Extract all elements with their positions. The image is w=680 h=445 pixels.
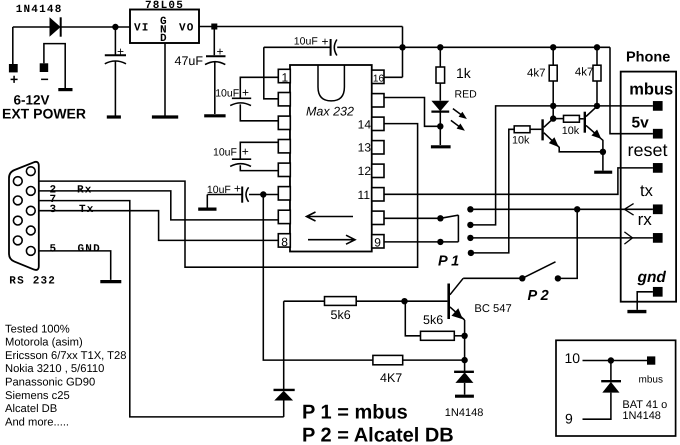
svg-text:5v: 5v [632,115,650,132]
svg-text:5k6: 5k6 [423,313,443,327]
svg-text:5k6: 5k6 [331,308,351,322]
svg-text:1k: 1k [456,65,472,81]
svg-text:78L05: 78L05 [145,0,184,12]
svg-text:10uF: 10uF [207,184,231,196]
svg-text:BC 547: BC 547 [474,303,511,315]
svg-text:10uF: 10uF [294,35,318,47]
svg-text:1N4148: 1N4148 [622,410,661,422]
svg-text:P 1 = mbus: P 1 = mbus [302,402,408,424]
svg-text:+: + [10,71,18,87]
svg-text:4K7: 4K7 [380,371,402,385]
svg-text:9: 9 [565,411,573,427]
svg-text:Alcatel DB: Alcatel DB [5,403,57,415]
svg-text:Ericsson 6/7xx T1X, T28: Ericsson 6/7xx T1X, T28 [5,350,126,362]
svg-text:1: 1 [282,71,289,85]
svg-text:1N4148: 1N4148 [16,4,63,16]
svg-text:−: − [41,71,49,87]
svg-text:8: 8 [281,235,288,249]
svg-text:+: + [242,144,249,158]
svg-text:11: 11 [358,188,371,202]
svg-text:gnd: gnd [637,269,667,286]
svg-text:4k7: 4k7 [527,68,546,80]
svg-text:14: 14 [358,118,372,132]
svg-text:4k7: 4k7 [575,67,594,79]
svg-text:10k: 10k [512,134,530,146]
svg-text:D: D [160,33,168,45]
svg-text:Phone: Phone [626,50,670,66]
svg-text:13: 13 [358,141,372,155]
svg-text:10uF: 10uF [213,147,237,159]
svg-text:P 2 = Alcatel DB: P 2 = Alcatel DB [302,424,454,445]
svg-text:Nokia 3210 , 5/6110: Nokia 3210 , 5/6110 [5,363,104,375]
svg-text:RED: RED [455,88,478,100]
svg-text:rx: rx [638,210,653,229]
svg-text:+: + [117,45,124,59]
svg-text:VO: VO [179,22,195,34]
svg-text:Rx: Rx [77,184,93,196]
svg-text:reset: reset [628,140,668,160]
svg-text:3: 3 [50,204,58,216]
svg-text:10: 10 [565,350,581,366]
svg-text:10k: 10k [562,125,580,137]
svg-text:mbus: mbus [639,374,663,385]
svg-text:47uF: 47uF [175,54,204,68]
svg-text:P 1: P 1 [438,253,459,269]
svg-text:10uF: 10uF [215,88,239,100]
svg-text:5: 5 [50,243,58,255]
svg-text:mbus: mbus [629,81,673,99]
svg-text:9: 9 [374,236,381,250]
svg-text:Tested 100%: Tested 100% [5,323,70,335]
svg-text:tx: tx [640,182,654,200]
svg-text:Tx: Tx [79,204,95,216]
svg-text:Siemens c25: Siemens c25 [5,390,70,402]
svg-text:VI: VI [134,22,150,34]
svg-text:GND: GND [78,243,101,255]
svg-text:EXT POWER: EXT POWER [2,106,86,122]
svg-text:1N4148: 1N4148 [445,407,484,419]
svg-text:BAT 41 o: BAT 41 o [622,399,667,411]
svg-text:And more.....: And more..... [5,416,69,428]
svg-text:Motorola (asim): Motorola (asim) [5,337,83,349]
svg-text:16: 16 [373,74,385,85]
svg-text:12: 12 [358,164,372,178]
svg-text:Panassonic GD90: Panassonic GD90 [5,377,95,389]
svg-text:Max 232: Max 232 [306,105,354,119]
svg-text:RS 232: RS 232 [9,275,56,287]
svg-text:+: + [217,45,224,59]
svg-text:+: + [242,86,249,100]
svg-text:+: + [234,182,241,196]
svg-text:P 2: P 2 [528,288,549,304]
svg-text:+: + [322,35,329,49]
